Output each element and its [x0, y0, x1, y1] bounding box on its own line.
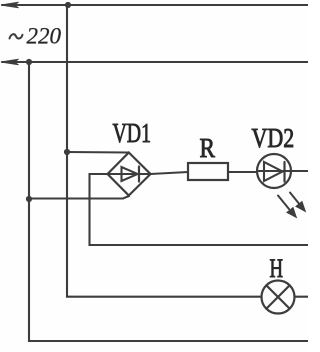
- wire mains line L1: [2, 4, 308, 6]
- wire from node (29,199) to bridge VD1 bottom vertex: [29, 196, 129, 199]
- resistor R: [188, 163, 228, 180]
- svg-text:VD1: VD1: [113, 119, 151, 149]
- wire tap from (67,152) to bridge VD1 top vertex: [67, 151, 129, 154]
- emission arrow 2 of LED VD2: [290, 193, 305, 212]
- wire mains line L2: [2, 61, 308, 63]
- node junction dot at (29,199): [26, 196, 32, 202]
- wire lamp H to right edge: [295, 296, 309, 298]
- value label ~220 V mains: [10, 24, 62, 49]
- emission arrow 1 of LED VD2: [278, 196, 296, 218]
- svg-text:220: 220: [27, 24, 62, 49]
- wire neutral branch down x=29 and along bottom: [29, 62, 308, 341]
- rectifier bridge VD1: [108, 153, 151, 196]
- wire resistor R to LED VD2: [228, 171, 257, 173]
- lamp H: [262, 281, 295, 314]
- node junction dot at (67,152): [64, 149, 70, 155]
- arrow left end of mains line L1: [1, 2, 19, 8]
- arrow left end of mains line L2: [1, 59, 19, 65]
- wire LED VD2 to right edge: [291, 170, 308, 172]
- wire phase branch down x=67 and right to lamp H: [67, 5, 262, 297]
- svg-text:VD2: VD2: [252, 124, 295, 154]
- wire bridge VD1 right vertex to resistor R: [151, 172, 189, 174]
- LED VD2: [257, 154, 291, 188]
- wire bridge VD1 left vertex down to minus rail y=245: [90, 174, 309, 245]
- node junction dot on L1 at x=68: [65, 2, 71, 8]
- node junction dot on L2 at x=29: [26, 59, 32, 65]
- svg-text:R: R: [200, 134, 216, 163]
- svg-text:H: H: [270, 254, 284, 283]
